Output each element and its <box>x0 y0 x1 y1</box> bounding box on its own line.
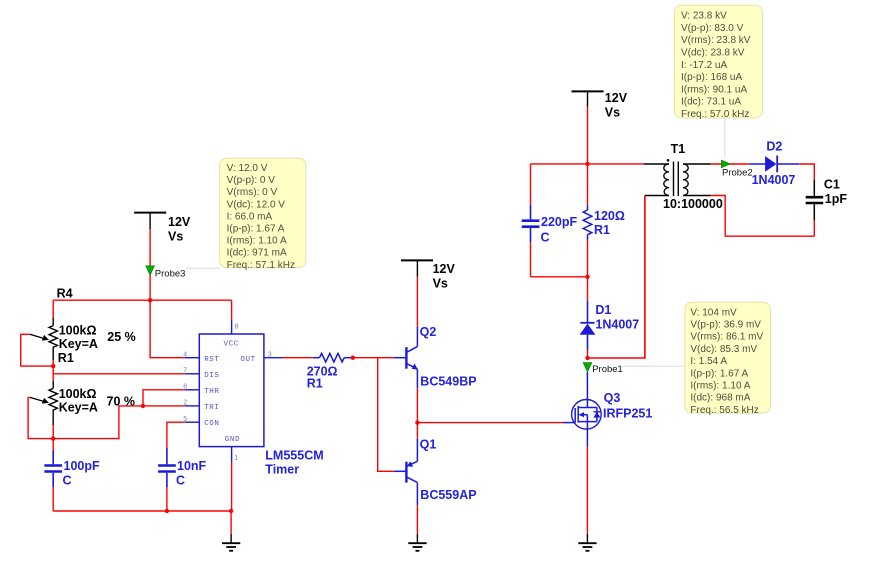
svg-text:V(p-p): 0 V: V(p-p): 0 V <box>227 175 276 186</box>
svg-text:V: 12.0 V: V: 12.0 V <box>227 163 268 174</box>
pin 2 stub <box>183 400 199 407</box>
node J junction <box>585 162 589 166</box>
svg-text:V(p-p): 83.0 V: V(p-p): 83.0 V <box>681 23 744 34</box>
transistor Q2 BC549BP <box>394 325 477 389</box>
svg-text:12V: 12V <box>168 215 191 229</box>
svg-text:OUT: OUT <box>240 356 255 364</box>
ground GND1 <box>222 534 240 551</box>
svg-text:6: 6 <box>183 384 187 391</box>
svg-text:Key=A: Key=A <box>59 337 98 351</box>
svg-text:C1: C1 <box>824 178 840 192</box>
svg-text:C: C <box>176 474 185 488</box>
svg-text:IRFP251: IRFP251 <box>603 407 652 421</box>
transistor Q3 IRFP251 <box>563 372 652 447</box>
svg-text:V(dc): 12.0 V: V(dc): 12.0 V <box>227 199 286 210</box>
wire R1 to Q2 base <box>351 357 394 359</box>
probe data box Probe3 <box>220 158 306 270</box>
svg-text:D1: D1 <box>595 303 611 317</box>
wire node J rail <box>531 163 644 165</box>
svg-text:120Ω: 120Ω <box>594 209 625 223</box>
svg-text:12V: 12V <box>605 91 628 105</box>
wire node C to TRI <box>53 406 185 439</box>
transformer T1 <box>644 142 723 211</box>
wire GND pin drop <box>230 447 233 534</box>
svg-text:V(rms): 0 V: V(rms): 0 V <box>227 187 278 198</box>
svg-text:I: 1.54 A: I: 1.54 A <box>690 356 727 367</box>
svg-text:100pF: 100pF <box>64 459 100 473</box>
svg-text:DIS: DIS <box>204 372 219 380</box>
node B junction (R4 bottom) <box>51 364 55 368</box>
svg-text:I(rms): 1.10 A: I(rms): 1.10 A <box>690 381 750 392</box>
capacitor C 10nF <box>158 448 206 511</box>
svg-text:BC559AP: BC559AP <box>420 488 476 502</box>
capacitor C 100pF <box>44 439 100 511</box>
svg-text:I(rms): 90.1 uA: I(rms): 90.1 uA <box>681 84 747 95</box>
node K junction <box>585 275 589 279</box>
svg-text:Freq.: 57.1 kHz: Freq.: 57.1 kHz <box>227 260 295 271</box>
ground GND2 <box>408 534 426 551</box>
svg-text:100kΩ: 100kΩ <box>59 324 97 338</box>
svg-text:I(p-p): 168 uA: I(p-p): 168 uA <box>681 72 742 83</box>
wire CON drop <box>167 422 185 448</box>
wire node A to RST <box>150 300 185 358</box>
svg-text:V: 104 mV: V: 104 mV <box>690 307 737 318</box>
svg-text:7: 7 <box>183 368 187 375</box>
svg-text:1: 1 <box>234 455 238 462</box>
wire bottom rail <box>53 510 231 512</box>
svg-text:R1: R1 <box>58 351 74 365</box>
probe Probe2 <box>721 160 752 178</box>
svg-text:R1: R1 <box>307 377 323 391</box>
probe leader line Probe1 <box>622 365 685 367</box>
svg-text:V(rms): 23.8 kV: V(rms): 23.8 kV <box>681 35 751 46</box>
pin 8 stub <box>232 320 239 334</box>
svg-text:Timer: Timer <box>265 463 299 477</box>
svg-text:V(p-p): 36.9 mV: V(p-p): 36.9 mV <box>690 320 761 331</box>
probe Probe3 <box>146 266 186 280</box>
pin 4 stub <box>183 352 199 359</box>
svg-text:I(p-p): 1.67 A: I(p-p): 1.67 A <box>227 224 285 235</box>
node H junction (emitters) <box>415 420 419 424</box>
svg-text:25 %: 25 % <box>107 330 136 344</box>
wire T1 primary bottom drop <box>644 196 646 359</box>
pin 5 stub <box>183 416 199 423</box>
svg-text:CON: CON <box>204 420 219 428</box>
power source VS3 12V <box>401 260 456 290</box>
pin 6 stub <box>183 384 199 391</box>
svg-text:1N4007: 1N4007 <box>752 173 796 187</box>
node F junction (GND rail) <box>229 509 233 513</box>
op-amp U1 LM555CM body <box>199 334 323 477</box>
wire top rail R4 to VCC branch <box>53 299 231 301</box>
svg-text:Q2: Q2 <box>420 325 437 339</box>
svg-text:I(dc): 968 mA: I(dc): 968 mA <box>690 393 750 404</box>
svg-text:LM555CM: LM555CM <box>265 449 323 463</box>
svg-text:10:100000: 10:100000 <box>663 197 723 211</box>
svg-text:V(rms): 86.1 mV: V(rms): 86.1 mV <box>690 332 763 343</box>
svg-text:100kΩ: 100kΩ <box>59 387 97 401</box>
potentiometer R1 (pot) <box>30 351 135 439</box>
svg-text:2: 2 <box>183 400 187 407</box>
svg-text:TRI: TRI <box>204 404 219 412</box>
svg-text:3: 3 <box>268 352 272 359</box>
probe leader line Probe3 <box>186 267 220 269</box>
wire THR tie <box>143 390 185 406</box>
svg-text:220pF: 220pF <box>541 215 577 229</box>
wire Q2 emitter to node H <box>416 388 418 423</box>
power source VS2 12V <box>572 91 628 120</box>
probe data box Probe1 <box>685 302 771 416</box>
wire T1 secondary top to D2 <box>711 163 750 165</box>
svg-text:Vs: Vs <box>433 277 448 291</box>
wire 220pF bottom to node K <box>531 276 588 278</box>
svg-text:GND: GND <box>225 436 240 444</box>
svg-text:T1: T1 <box>671 142 686 156</box>
wire node L to T1 primary bottom <box>588 196 646 359</box>
node D junction (THR-TRI) <box>141 404 145 408</box>
ground GND3 <box>578 534 596 551</box>
resistor R1 270ohm <box>307 353 351 390</box>
svg-text:R1: R1 <box>594 223 610 237</box>
svg-text:8: 8 <box>235 324 239 331</box>
node C junction (R1 bottom) <box>51 436 55 440</box>
svg-text:R4: R4 <box>57 287 73 301</box>
capacitor C 220pF <box>522 164 578 277</box>
wire R1 wiper loop <box>28 397 53 438</box>
svg-text:I(p-p): 1.67 A: I(p-p): 1.67 A <box>690 368 748 379</box>
svg-text:4: 4 <box>183 352 187 359</box>
svg-text:RST: RST <box>204 356 219 364</box>
svg-text:Q3: Q3 <box>604 391 621 405</box>
wire base drop to Q1 <box>378 358 394 472</box>
wire D2 to C1 <box>799 164 814 180</box>
svg-text:THR: THR <box>204 388 219 396</box>
probe data box Probe2 <box>674 5 762 120</box>
wire VCC drop <box>231 300 233 320</box>
pin 3 stub <box>264 352 282 359</box>
wire C1 bottom to T1 secondary bottom <box>711 196 815 237</box>
wire node H to Q3 gate <box>417 422 563 424</box>
svg-text:Probe1: Probe1 <box>592 364 623 375</box>
svg-text:C: C <box>63 474 72 488</box>
svg-text:V: 23.8 kV: V: 23.8 kV <box>681 11 727 22</box>
svg-text:Vs: Vs <box>168 230 183 244</box>
svg-text:5: 5 <box>183 416 187 423</box>
svg-text:Probe3: Probe3 <box>155 269 186 280</box>
svg-text:Freq.: 56.5 kHz: Freq.: 56.5 kHz <box>690 405 758 416</box>
svg-text:BC549BP: BC549BP <box>420 375 476 389</box>
power source VS1 12V <box>134 213 191 244</box>
probe Probe1 <box>583 363 623 375</box>
node A junction <box>148 298 152 302</box>
svg-text:V(dc): 23.8 kV: V(dc): 23.8 kV <box>681 48 745 59</box>
svg-text:Probe2: Probe2 <box>722 168 753 179</box>
wire node B to DIS <box>53 366 185 374</box>
svg-text:VCC: VCC <box>224 341 239 349</box>
wire OUT to R1 <box>282 357 313 359</box>
svg-text:I(dc): 73.1 uA: I(dc): 73.1 uA <box>681 97 741 108</box>
diode D2 1N4007 <box>750 140 800 188</box>
diode D1 1N4007 <box>580 277 640 358</box>
wire Q1 collector to ground <box>416 505 418 534</box>
wire VS2 to node J <box>587 107 589 164</box>
svg-text:Key=A: Key=A <box>59 400 98 414</box>
svg-text:Vs: Vs <box>605 106 620 120</box>
svg-text:I(rms): 1.10 A: I(rms): 1.10 A <box>227 236 287 247</box>
svg-text:1pF: 1pF <box>825 192 848 206</box>
wire VS3 to Q2 collector <box>416 277 418 327</box>
pin 7 stub <box>183 368 199 375</box>
svg-text:D2: D2 <box>766 140 782 154</box>
node L junction (drain top) <box>585 356 589 360</box>
resistor R1 120ohm <box>583 164 625 277</box>
svg-text:12V: 12V <box>433 262 456 276</box>
svg-text:V(dc): 85.3 mV: V(dc): 85.3 mV <box>690 344 757 355</box>
potentiometer R4 <box>30 287 136 367</box>
svg-text:I(dc): 971 mA: I(dc): 971 mA <box>227 248 287 259</box>
svg-text:I: -17.2 uA: I: -17.2 uA <box>681 60 727 71</box>
svg-text:Freq.: 57.0 kHz: Freq.: 57.0 kHz <box>681 109 749 120</box>
wire R4 wiper loop <box>21 334 54 366</box>
wire Q3 source to ground <box>586 447 588 535</box>
wire VS1 to node A <box>149 229 151 300</box>
transistor Q1 BC559AP <box>394 423 477 505</box>
svg-text:Q1: Q1 <box>420 438 437 452</box>
capacitor C1 1pF <box>806 178 848 221</box>
svg-text:I: 66.0 mA: I: 66.0 mA <box>227 211 273 222</box>
probe leader line Probe2 <box>724 118 726 158</box>
svg-text:10nF: 10nF <box>177 459 207 473</box>
node E junction (10nF bottom) <box>165 509 169 513</box>
node G junction (R1 out) <box>351 356 355 360</box>
svg-text:1N4007: 1N4007 <box>595 318 639 332</box>
svg-text:C: C <box>541 231 550 245</box>
